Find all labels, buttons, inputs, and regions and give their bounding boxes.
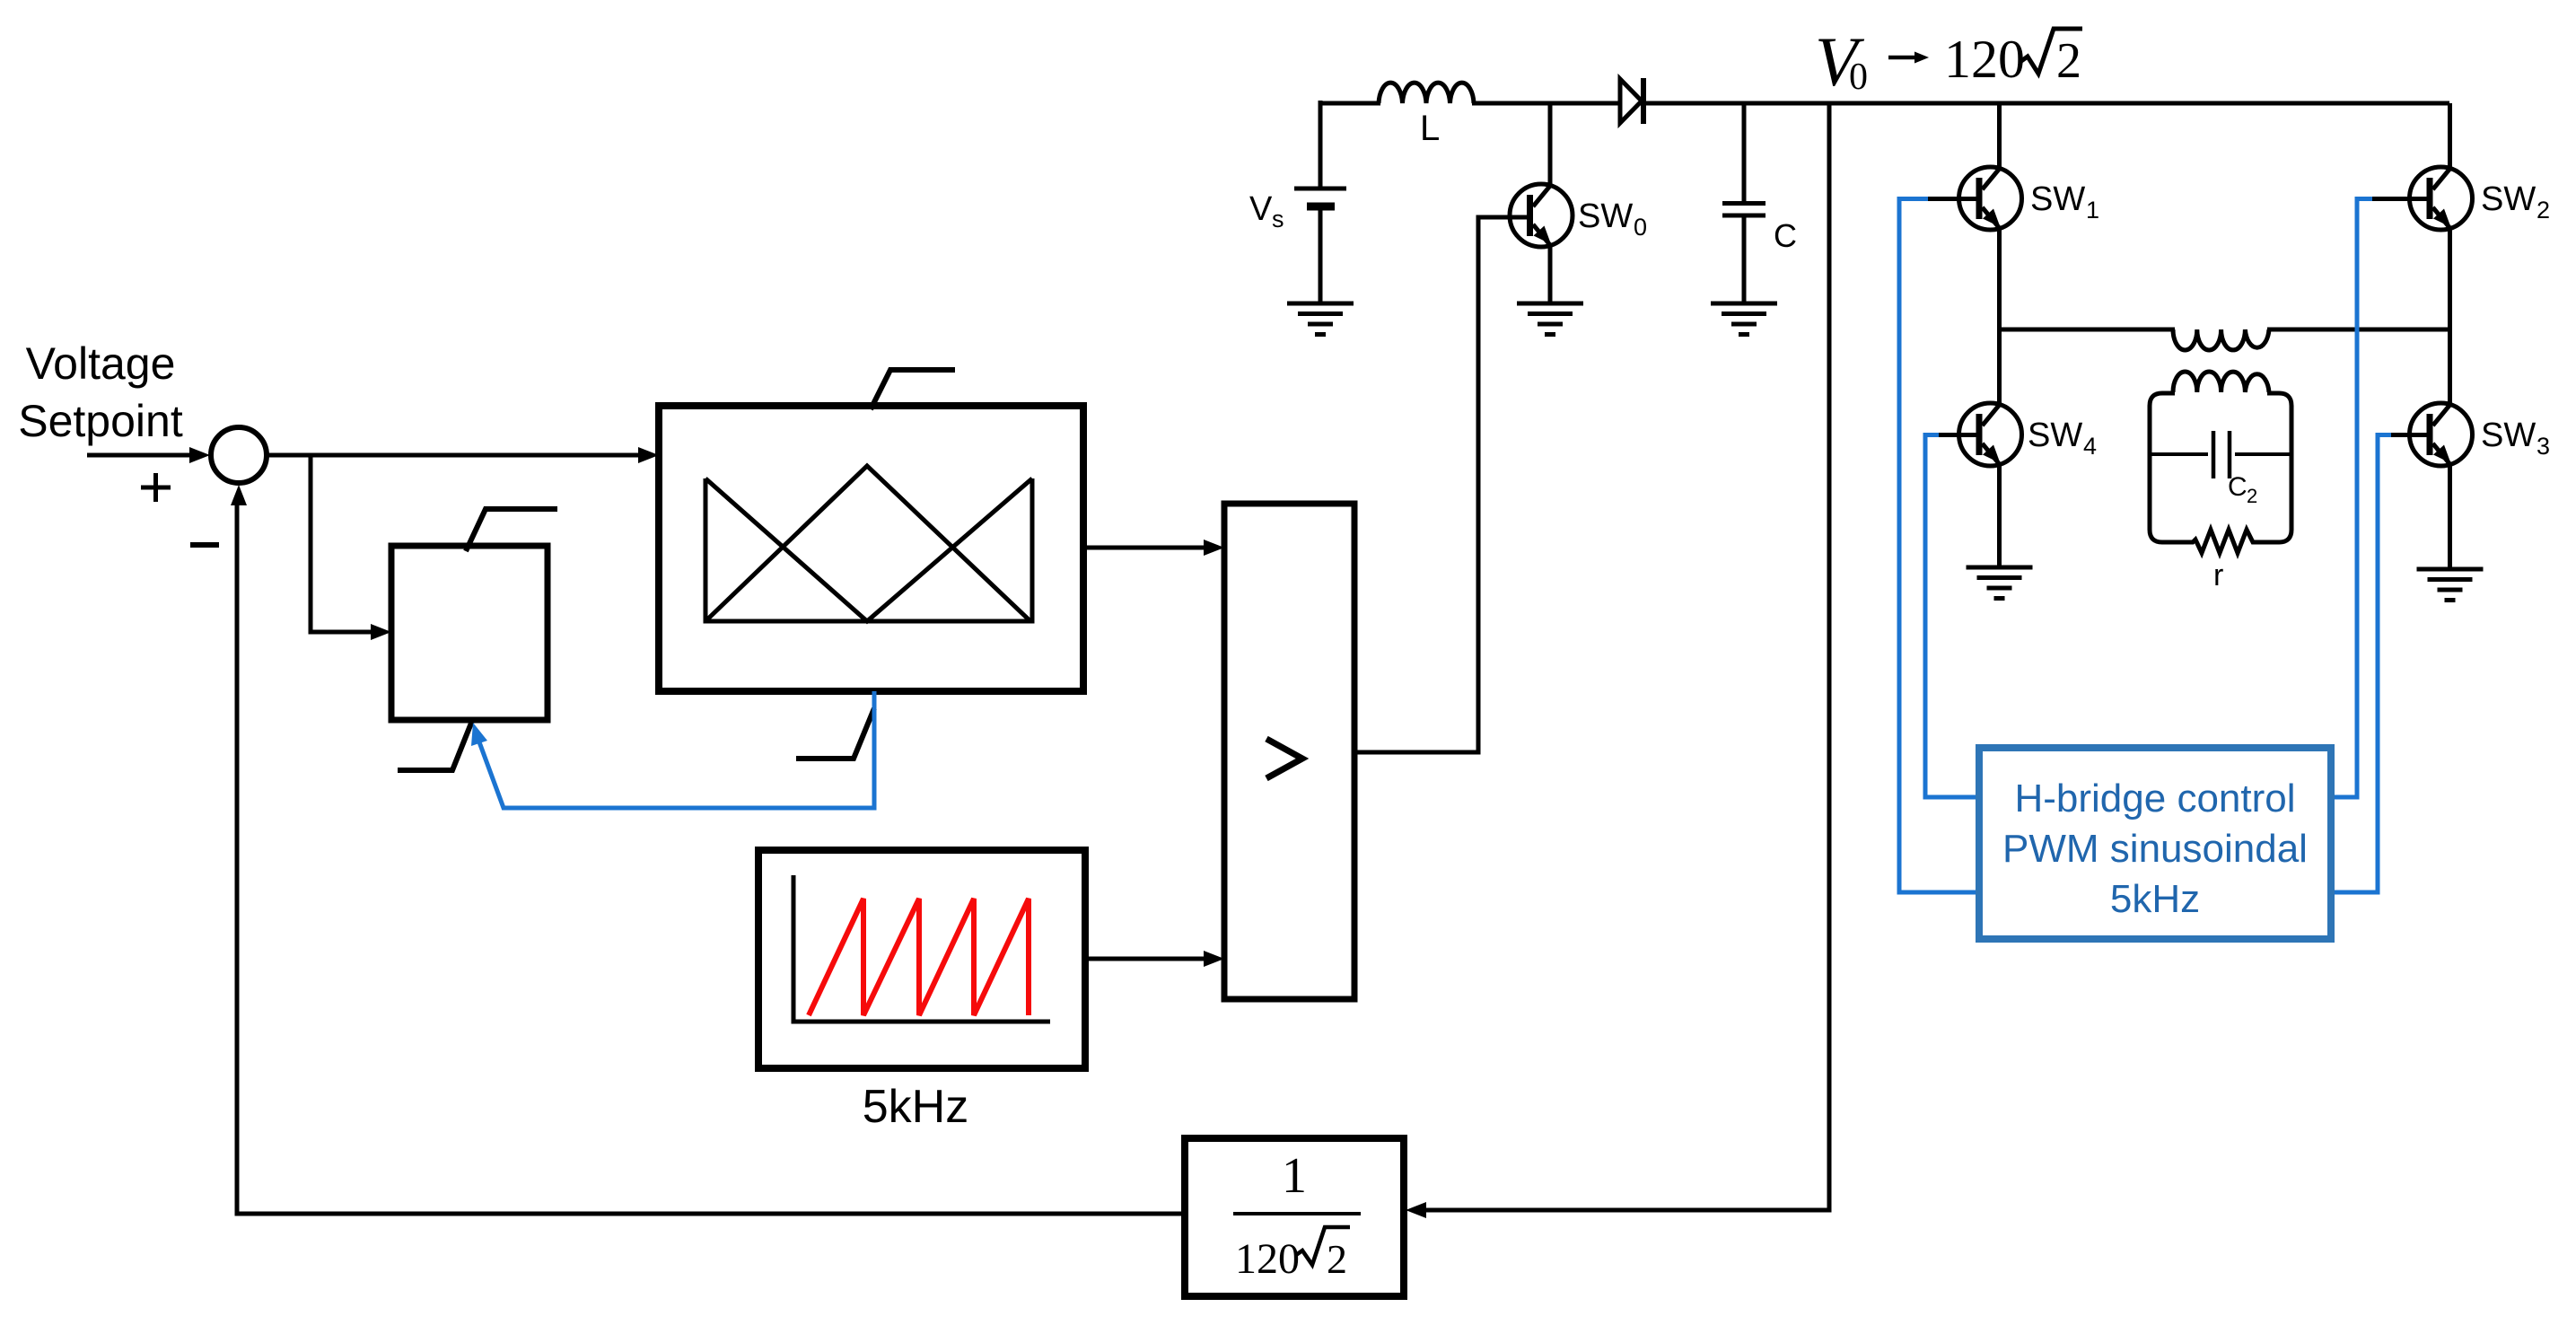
transistor SW1 bbox=[1959, 167, 2022, 230]
greater-than symbol in comparator bbox=[1266, 739, 1302, 778]
wire: SW1 collector from top rail bbox=[1997, 101, 2002, 171]
feedback block text bbox=[1233, 1148, 1361, 1283]
svg-text:V: V bbox=[1249, 190, 1273, 228]
saturation mark bottom of gain block bbox=[398, 721, 472, 770]
transistor SW3 bbox=[2410, 403, 2473, 466]
wire: SW2 collector corner from top rail bbox=[2448, 103, 2452, 171]
transistor SW0 bbox=[1510, 184, 1573, 247]
svg-text:r: r bbox=[2213, 558, 2223, 592]
feedback block 1/120sqrt2 bbox=[1185, 1138, 1404, 1296]
wire: SW1 base lead bbox=[1925, 197, 1977, 201]
wire: SW0 collector bbox=[1548, 101, 1553, 187]
fuzzy membership functions drawing bbox=[705, 466, 1032, 621]
svg-text:2: 2 bbox=[2056, 33, 2081, 89]
wire: SW4 emitter to ground bbox=[1997, 463, 2002, 567]
saturation mark bottom of fuzzy block bbox=[796, 708, 874, 759]
svg-text:1: 1 bbox=[2086, 197, 2099, 224]
label SW2 bbox=[2481, 180, 2550, 224]
wire: SW0 emitter to ground bbox=[1548, 244, 1553, 303]
label SW3 bbox=[2481, 417, 2550, 460]
wire: blue gate drive to SW4 bbox=[1925, 435, 1976, 798]
diode D1 bbox=[1620, 78, 1643, 124]
wire: feedback block output back to summing junction bbox=[231, 485, 1185, 1214]
wire: SW4 collector from bridge left node bbox=[1997, 329, 2002, 407]
H-bridge control block text bbox=[2002, 777, 2308, 921]
svg-text:SW: SW bbox=[1578, 197, 1633, 235]
transformer secondary winding bbox=[2173, 372, 2269, 392]
svg-text:2: 2 bbox=[2537, 197, 2550, 224]
svg-text:1: 1 bbox=[1282, 1148, 1307, 1204]
ground under Vs bbox=[1287, 303, 1354, 335]
wire: SW3 collector from bridge right node bbox=[2448, 329, 2452, 407]
ground under C bbox=[1711, 303, 1777, 335]
svg-text:4: 4 bbox=[2083, 433, 2097, 460]
wire: SW1 emitter to bridge left node bbox=[1997, 227, 2002, 329]
wire: SW3 base lead bbox=[2389, 433, 2428, 437]
wire: feedback tap vertical from V0 rail bbox=[1406, 101, 1829, 1218]
wire: bridge horizontal rail bbox=[2000, 328, 2450, 332]
svg-text:SW: SW bbox=[2030, 180, 2085, 218]
label SW4 bbox=[2028, 417, 2097, 460]
wire: blue gate drive to SW2 bbox=[2334, 199, 2372, 798]
wire: error signal to fuzzy controller bbox=[267, 447, 659, 463]
label V0 -> 120sqrt2 bbox=[1815, 22, 2082, 101]
ground under SW0 bbox=[1517, 303, 1583, 335]
battery Vs bbox=[1294, 101, 1346, 303]
capacitor C2 inside load box bbox=[2150, 431, 2291, 478]
wire: top rail V0 bbox=[1319, 101, 2449, 106]
svg-text:L: L bbox=[1420, 109, 1440, 148]
sawtooth waveform (red) bbox=[809, 899, 1029, 1015]
wire: blue adaptation feedback from fuzzy block to gain block bbox=[471, 691, 874, 808]
svg-text:0: 0 bbox=[1849, 57, 1868, 98]
comparator block U2 bbox=[1224, 504, 1354, 999]
wire: SW3 emitter to ground bbox=[2448, 463, 2452, 569]
load box outline with resistor r on bottom edge bbox=[2150, 393, 2291, 553]
label Vs bbox=[1249, 190, 1284, 233]
label L bbox=[1420, 109, 1440, 148]
svg-text:H-bridge control: H-bridge control bbox=[2014, 777, 2295, 820]
svg-text:120: 120 bbox=[1235, 1235, 1300, 1283]
svg-text:2: 2 bbox=[1327, 1236, 1347, 1282]
label SW0 bbox=[1578, 197, 1647, 241]
label 5kHz under sawtooth block bbox=[863, 1081, 968, 1133]
ground under SW4 bbox=[1967, 567, 2033, 599]
transistor SW4 bbox=[1959, 403, 2022, 466]
wire: blue gate drive to SW3 bbox=[2334, 435, 2391, 893]
wire: fuzzy output to comparator bbox=[1083, 540, 1224, 556]
svg-text:SW: SW bbox=[2481, 180, 2536, 218]
wire: SW4 base lead bbox=[1937, 433, 1977, 437]
saturation mark top of fuzzy block bbox=[871, 370, 955, 409]
summing junction S1 bbox=[211, 427, 267, 483]
svg-text:SW: SW bbox=[2481, 417, 2536, 454]
transformer primary winding bbox=[2173, 329, 2269, 350]
wire: SW2 emitter to bridge right node bbox=[2448, 227, 2452, 329]
svg-text:Setpoint: Setpoint bbox=[18, 396, 183, 446]
capacitor C bbox=[1722, 101, 1766, 303]
svg-text:5kHz: 5kHz bbox=[2110, 877, 2200, 921]
gain block K1 (adaptive gain box) bbox=[391, 546, 548, 720]
minus sign at summing junction bbox=[190, 542, 219, 548]
ground under SW3 bbox=[2417, 569, 2484, 601]
sawtooth generator block G1 bbox=[758, 850, 1085, 1068]
sawtooth axes bbox=[793, 875, 1050, 1022]
fuzzy logic controller block U1 bbox=[659, 406, 1083, 691]
node: Voltage Setpoint input label bbox=[18, 338, 183, 446]
svg-text:120: 120 bbox=[1944, 30, 2025, 89]
wire: SW2 base lead bbox=[2370, 197, 2428, 201]
svg-text:s: s bbox=[1272, 206, 1284, 233]
svg-text:SW: SW bbox=[2028, 417, 2082, 454]
svg-text:Voltage: Voltage bbox=[26, 338, 176, 389]
wire: setpoint input arrow into summing junction bbox=[87, 447, 210, 463]
label r bbox=[2213, 558, 2223, 592]
wire: blue gate drive to SW1 bbox=[1899, 199, 1976, 893]
svg-text:5kHz: 5kHz bbox=[863, 1081, 968, 1133]
wire: sawtooth output to comparator bbox=[1085, 951, 1224, 967]
label C bbox=[1774, 217, 1797, 254]
label SW1 bbox=[2030, 180, 2099, 224]
svg-text:3: 3 bbox=[2537, 433, 2550, 460]
inductor L bbox=[1379, 83, 1474, 103]
wire: branch down to gain block bbox=[311, 455, 391, 640]
svg-text:0: 0 bbox=[1634, 214, 1647, 241]
svg-text:C: C bbox=[1774, 217, 1797, 254]
svg-text:PWM sinusoindal: PWM sinusoindal bbox=[2002, 827, 2308, 871]
wire: comparator output up to SW0 base bbox=[1354, 217, 1531, 752]
transistor SW2 bbox=[2410, 167, 2473, 230]
H-bridge control block (blue) bbox=[1979, 748, 2331, 939]
label C2 bbox=[2228, 472, 2257, 507]
svg-text:C: C bbox=[2228, 472, 2247, 502]
svg-text:2: 2 bbox=[2247, 485, 2257, 507]
plus sign at summing junction bbox=[141, 473, 171, 502]
saturation mark top of gain block bbox=[466, 509, 557, 551]
